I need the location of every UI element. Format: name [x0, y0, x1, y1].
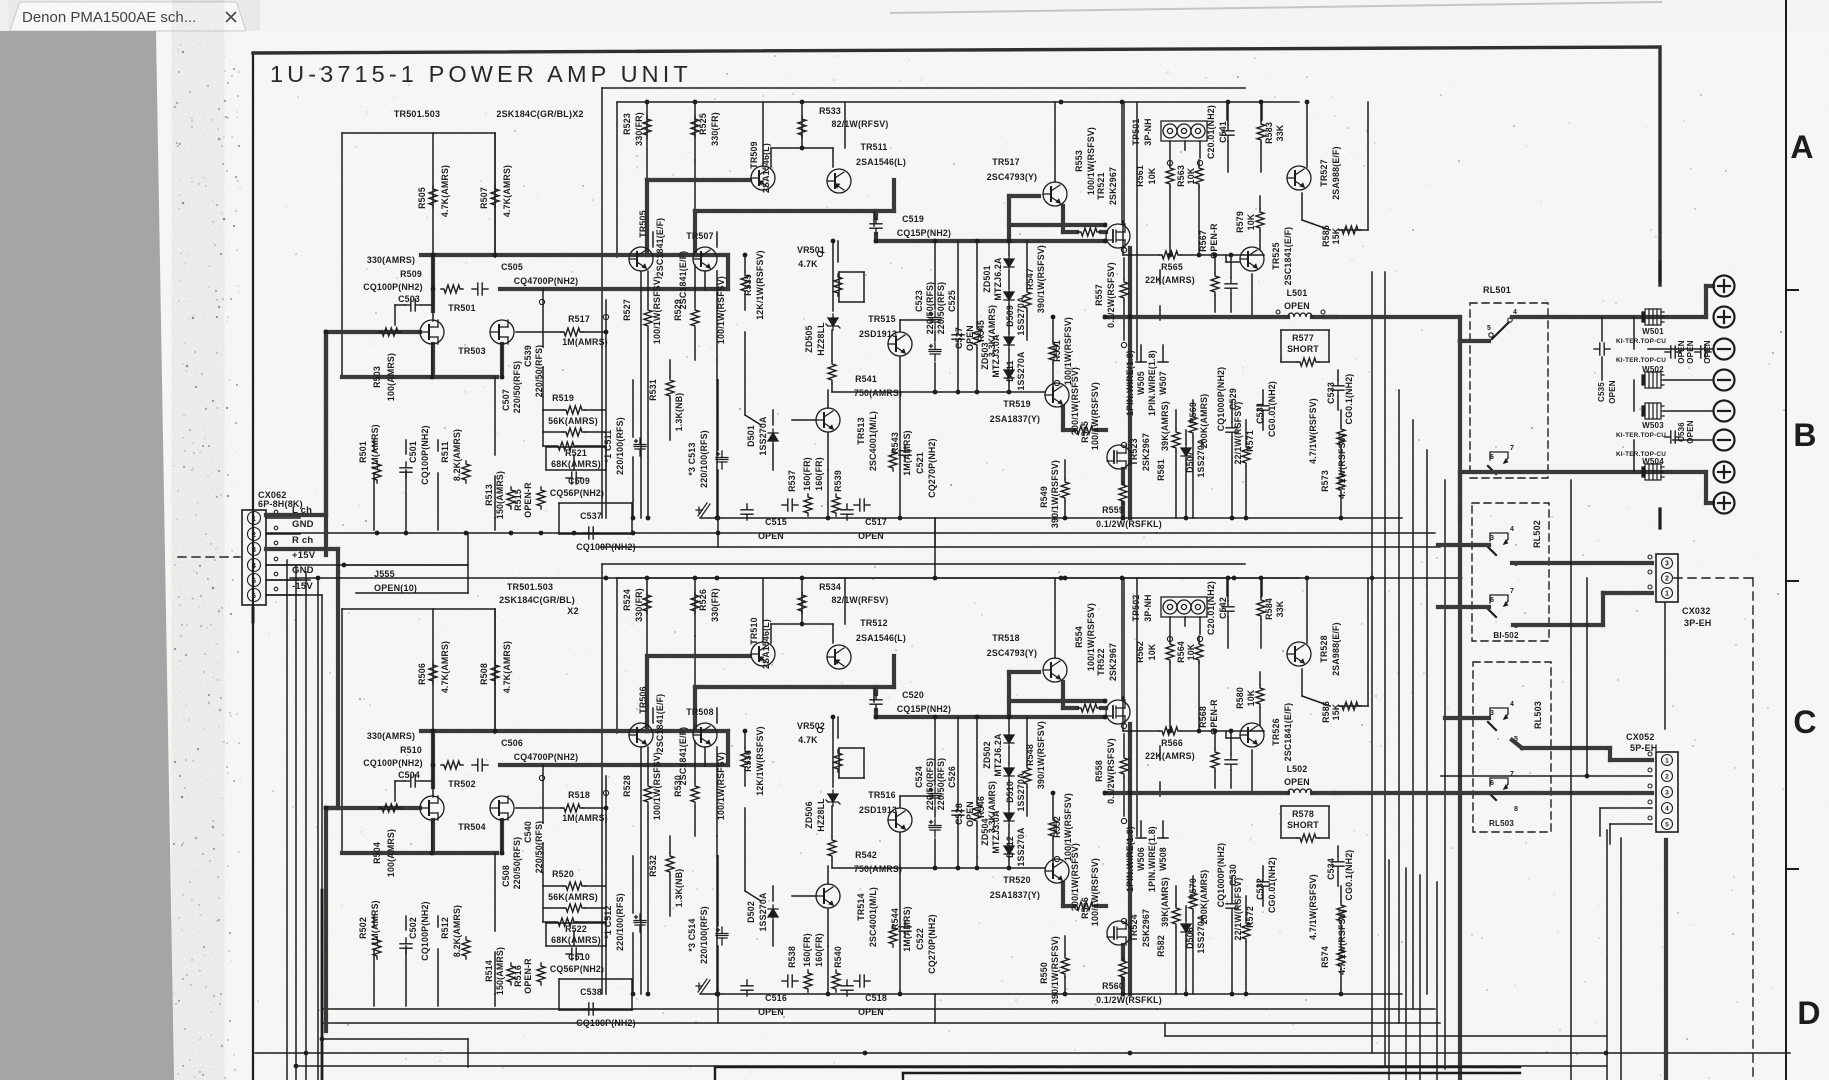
resistor R576	[1337, 902, 1345, 924]
capacitor C514	[716, 927, 728, 945]
relay RL503 lower switch	[1488, 778, 1508, 800]
transistor TR516	[888, 808, 912, 832]
capacitor C537	[583, 527, 599, 539]
JFET TR502	[420, 796, 444, 820]
resistor R540	[832, 970, 840, 992]
resistor R545	[973, 326, 981, 348]
capacitor	[854, 499, 870, 511]
capacitor C509	[566, 472, 582, 484]
zener ZD504	[1004, 842, 1014, 858]
sheet frame left border	[252, 53, 254, 1080]
capacitor C518	[841, 980, 853, 996]
diode D502	[768, 905, 778, 921]
capacitor C501	[400, 462, 412, 478]
channel R block	[324, 564, 1440, 1031]
test point connector TP502	[1161, 597, 1207, 617]
relay RL503 upper output to CX052 pin1	[1512, 740, 1522, 748]
resistor R583	[1257, 121, 1265, 143]
resistor R542	[828, 837, 836, 859]
resistor R586	[1339, 702, 1361, 710]
relay RL503 upper switch	[1488, 708, 1508, 730]
resistor R572	[1242, 920, 1250, 942]
transistor TR508	[693, 723, 717, 747]
resistor R580	[1256, 685, 1264, 707]
resistor R547	[1023, 289, 1031, 311]
resistor R571	[1242, 444, 1250, 466]
resistor R554	[1078, 704, 1100, 712]
resistor R506	[429, 662, 437, 684]
resistor R532	[666, 853, 674, 875]
JFET TR503	[490, 320, 514, 344]
zener ZD502	[1004, 731, 1014, 747]
capacitor C527	[952, 329, 964, 345]
scan noise	[0, 0, 1, 1]
inductor L502	[1288, 789, 1312, 793]
diode D501	[768, 429, 778, 445]
transistor TR505	[629, 247, 653, 271]
capacitor C535	[1665, 346, 1681, 358]
ground rail from connector	[266, 532, 1157, 534]
MOSFET TR523	[1107, 445, 1131, 469]
channel R ground rail	[322, 1008, 1157, 1010]
capacitor C528	[952, 805, 964, 821]
resistor R503	[379, 328, 401, 336]
resistor R558	[1120, 755, 1128, 777]
channel R output bus to CX052 pin3	[1335, 791, 1652, 795]
output bus channel L to relay	[1325, 315, 1460, 319]
transistor TR527	[1287, 166, 1311, 190]
resistor R513	[507, 487, 515, 509]
capacitor	[1225, 754, 1237, 770]
resistor R544	[889, 925, 897, 947]
channel R lower rail extension	[322, 1022, 600, 1024]
resistor R579	[1256, 209, 1264, 231]
diode D510	[1004, 764, 1014, 780]
CX032 stem line	[1664, 603, 1666, 729]
capacitor C515	[741, 504, 753, 520]
capacitor C506	[472, 759, 488, 771]
speaker terminal - B4	[1714, 430, 1735, 451]
transistor TR520	[1045, 859, 1069, 883]
diode D512	[1004, 809, 1014, 825]
relay RL502 upper switch	[1488, 533, 1508, 555]
transistor TR511	[827, 169, 851, 193]
speaker terminal + B6	[1714, 493, 1735, 514]
zener ZD501	[1004, 255, 1014, 271]
capacitor C534	[1332, 856, 1344, 872]
speaker terminal + A2	[1714, 307, 1735, 328]
resistor R557	[1120, 279, 1128, 301]
capacitor open right	[1695, 346, 1711, 358]
resistor R514	[507, 963, 515, 985]
ground rail between channels	[290, 577, 1460, 579]
speaker terminal - B1	[1714, 339, 1735, 360]
capacitor C516	[741, 980, 753, 996]
plug W504	[1642, 464, 1664, 480]
plug W501	[1642, 309, 1664, 325]
resistor R575	[1337, 426, 1345, 448]
resistor R564	[1195, 641, 1203, 663]
capacitor C517	[841, 504, 853, 520]
MOSFET TR524	[1107, 921, 1131, 945]
resistor R552	[1049, 817, 1057, 839]
coil L501 end circles	[1276, 310, 1280, 314]
transistor TR514	[816, 884, 840, 908]
open circles CX032 leads	[1648, 555, 1652, 559]
resistor R518	[561, 804, 583, 812]
capacitor C542	[1222, 601, 1234, 617]
output bus channel R to terminals	[1460, 470, 1706, 474]
resistor R529	[691, 307, 699, 329]
transistor TR506	[629, 723, 653, 747]
resistor R574	[1337, 947, 1345, 969]
capacitor C530	[1226, 898, 1238, 914]
resistor R585	[1339, 226, 1361, 234]
resistor R507	[491, 186, 499, 208]
capacitor C531	[1257, 400, 1269, 416]
capacitor C502	[400, 938, 412, 954]
relay RL502 dashed box	[1472, 503, 1549, 641]
capacitor	[782, 499, 798, 511]
capacitor C529	[1226, 422, 1238, 438]
CX052 pin4 wire	[1600, 807, 1652, 809]
capacitor C526	[929, 819, 941, 837]
resistor R559	[1119, 482, 1127, 504]
resistor R543	[889, 449, 897, 471]
resistor R566	[1159, 727, 1181, 735]
dashed lead-in	[178, 556, 240, 558]
speaker terminal + B5	[1714, 462, 1735, 483]
terminal connection wires	[1648, 348, 1713, 350]
J555 box	[344, 564, 468, 566]
long vertical x1587	[1586, 578, 1588, 776]
resistor R570	[1189, 890, 1197, 912]
resistor R578	[1297, 834, 1319, 842]
diode D511	[1004, 333, 1014, 349]
relay RL503 dashed box	[1473, 662, 1551, 832]
L-ch thick input feed	[266, 513, 326, 517]
page edge diagonal top	[890, 2, 1662, 13]
transistor TR517	[1043, 182, 1067, 206]
capacitor C513	[716, 451, 728, 469]
resistor R505	[429, 186, 437, 208]
transistor TR510	[751, 642, 775, 666]
relay RL501 arm	[1492, 323, 1508, 339]
resistor R577	[1297, 358, 1319, 366]
capacitor C525	[929, 343, 941, 361]
CX052 pin2 wire	[1441, 775, 1652, 777]
CX052 pin5 wire	[1610, 823, 1652, 825]
resistor R501	[373, 461, 381, 483]
section tick A/B	[1786, 289, 1798, 291]
zener ZD503	[1004, 366, 1014, 382]
resistor R523	[643, 116, 651, 138]
tab close button	[226, 12, 236, 22]
stub bar below W504	[1658, 509, 1661, 528]
transistor TR515	[888, 332, 912, 356]
resistor R539	[832, 494, 840, 516]
bottom rail 2	[296, 1065, 1606, 1067]
diode D509	[1004, 288, 1014, 304]
speaker terminal - B2	[1714, 370, 1735, 391]
GND pin5 wire	[266, 579, 310, 581]
resistor R502	[373, 937, 381, 959]
capacitor C524	[929, 787, 941, 805]
connector CX062 bottom stub	[252, 608, 255, 622]
dashed net to frame	[1674, 577, 1753, 579]
resistor R525	[691, 116, 699, 138]
resistor R548	[1023, 765, 1031, 787]
inductor L501	[1288, 313, 1312, 317]
resistor R516	[537, 963, 545, 985]
transistor TR528	[1287, 642, 1311, 666]
connector CX052	[1656, 752, 1678, 832]
capacitor C522	[899, 921, 911, 937]
resistor R533	[798, 116, 806, 138]
relay RL502 feeds	[1438, 543, 1489, 547]
resistor R549	[1061, 479, 1069, 501]
transistor TR519	[1045, 383, 1069, 407]
transistor TR526	[1240, 723, 1264, 747]
connector CX062	[242, 510, 266, 605]
resistor	[563, 904, 585, 912]
resistor R504	[379, 804, 401, 812]
ground mark	[696, 979, 710, 993]
resistor R560	[1119, 958, 1127, 980]
capacitor	[782, 975, 798, 987]
resistor R556	[1074, 902, 1096, 910]
resistor R569	[1189, 414, 1197, 436]
capacitor C533	[1332, 380, 1344, 396]
section tick B/C	[1786, 580, 1798, 582]
browser tab bar	[0, 0, 260, 31]
resistor	[563, 428, 585, 436]
resistor R536	[741, 748, 749, 770]
right vertical trunk lines	[1371, 272, 1373, 1053]
stub bar above W501	[1658, 262, 1661, 281]
section tick C/D	[1786, 868, 1798, 870]
transistor TR525	[1240, 247, 1264, 271]
output bus relay to terminals	[1512, 315, 1706, 319]
capacitor C538	[583, 1003, 599, 1015]
transistor TR518	[1043, 658, 1067, 682]
capacitor C535	[1594, 343, 1610, 355]
capacitor C520	[870, 694, 882, 710]
active tab	[10, 2, 246, 31]
resistor R530	[691, 783, 699, 805]
capacitor C512	[634, 914, 646, 932]
bottom left step net	[322, 1038, 468, 1040]
left gray strip	[0, 31, 174, 1080]
resistor R555	[1074, 426, 1096, 434]
sheet frame top border	[253, 47, 1660, 285]
resistor R510	[441, 761, 463, 769]
resistor R512	[462, 937, 470, 959]
resistor R522	[555, 918, 577, 926]
mid rails	[934, 518, 936, 578]
capacitor C532	[1257, 876, 1269, 892]
-15V wire	[266, 594, 322, 596]
sheet frame right border	[1785, 0, 1787, 1080]
capacitor	[854, 975, 870, 987]
relay RL501 lower switch	[1488, 452, 1508, 474]
resistor R562	[1166, 641, 1174, 663]
capacitor	[1225, 278, 1237, 294]
+15V wire	[266, 564, 468, 566]
bottom block top edge	[715, 1066, 1520, 1068]
bottom vertical runs	[1388, 860, 1390, 1080]
relay RL501 dashed box	[1470, 303, 1548, 478]
speaker terminal + A1	[1714, 276, 1735, 297]
resistor R561	[1166, 165, 1174, 187]
thick feed trunk	[1458, 341, 1462, 1080]
capacitor C505	[472, 283, 488, 295]
transistor TR513	[816, 408, 840, 432]
resistor R511	[462, 461, 470, 483]
bottom inner block top edge	[903, 1072, 1520, 1074]
resistor R537	[804, 494, 812, 516]
resistor R568	[1211, 749, 1219, 771]
resistor R534	[798, 592, 806, 614]
capacitor C541	[1222, 125, 1234, 141]
capacitor C519	[870, 218, 882, 234]
resistor R515	[537, 487, 545, 509]
resistor R527	[644, 307, 652, 329]
svg-text:Denon PMA1500AE sch...: Denon PMA1500AE sch...	[22, 9, 196, 26]
capacitor C523	[929, 311, 941, 329]
resistor R546	[973, 802, 981, 824]
resistor R509	[441, 285, 463, 293]
resistor R508	[491, 662, 499, 684]
capacitor C504	[405, 775, 421, 787]
JFET TR501	[420, 320, 444, 344]
resistor R563	[1195, 165, 1203, 187]
resistor R565	[1159, 251, 1181, 259]
resistor R519	[563, 406, 585, 414]
bottom junctions	[304, 1051, 309, 1056]
relay RL502 lower output to CX032 pin1	[1513, 623, 1603, 627]
plug W503	[1642, 403, 1664, 419]
resistor R573	[1337, 471, 1345, 493]
test point connector TP501	[1161, 121, 1207, 141]
relay RL502 upper output to CX032 pin3	[1512, 561, 1652, 565]
trimmer VR501	[834, 274, 842, 296]
resistor R528	[644, 783, 652, 805]
JFET TR504	[490, 796, 514, 820]
channel L wiring	[602, 87, 1245, 89]
resistor R526	[691, 592, 699, 614]
diode D507	[1181, 444, 1191, 460]
resistor R551	[1049, 341, 1057, 363]
resistor R550	[1061, 955, 1069, 977]
MOSFET TR522	[1106, 700, 1130, 724]
transistor TR507	[693, 247, 717, 271]
resistor R521	[555, 442, 577, 450]
capacitor C503	[405, 299, 421, 311]
resistor R517	[561, 328, 583, 336]
R-ch thick input feed	[266, 547, 338, 551]
capacitor C536	[1665, 431, 1681, 443]
resistor R524	[643, 592, 651, 614]
trimmer VR502	[834, 750, 842, 772]
resistor R520	[563, 882, 585, 890]
transistor TR509	[751, 166, 775, 190]
resistor R582	[1172, 905, 1180, 927]
capacitor C521	[899, 445, 911, 461]
capacitor C510	[566, 948, 582, 960]
bottom corner net	[1164, 1023, 1166, 1036]
capacitor C511	[634, 438, 646, 456]
MOSFET TR521	[1106, 224, 1130, 248]
relay RL502 lower switch	[1488, 595, 1508, 617]
long vertical x1571	[1570, 480, 1572, 1080]
channel L block	[324, 88, 1440, 555]
resistor R535	[741, 272, 749, 294]
connector CX032	[1656, 554, 1678, 602]
resistor R553	[1078, 228, 1100, 236]
resistor R531	[666, 377, 674, 399]
plug W502	[1642, 372, 1664, 388]
resistor R538	[804, 970, 812, 992]
diode D508	[1181, 920, 1191, 936]
left vertical wire bundle	[286, 560, 288, 1080]
left margin speckle band	[176, 42, 220, 1080]
resistor R581	[1172, 429, 1180, 451]
relay RL503 upper feed	[1445, 716, 1489, 720]
resistor R541	[828, 361, 836, 383]
zener ZD506	[826, 790, 840, 806]
zener ZD505	[826, 314, 840, 330]
channel R wiring	[602, 563, 1245, 565]
ground mark	[696, 503, 710, 517]
resistor R567	[1211, 273, 1219, 295]
speaker terminal - B3	[1714, 401, 1735, 422]
bottom rail 1	[255, 1052, 1790, 1054]
transistor TR512	[827, 645, 851, 669]
resistor R584	[1257, 597, 1265, 619]
